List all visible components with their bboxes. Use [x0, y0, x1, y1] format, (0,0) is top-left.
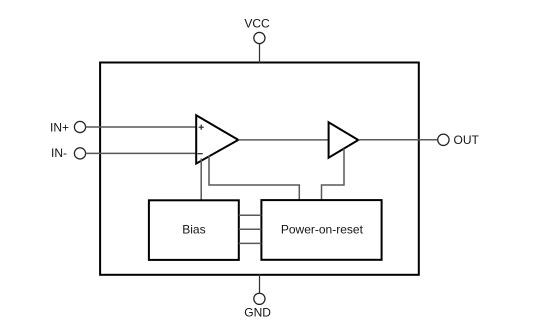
buffer triangle	[329, 122, 359, 157]
svg-text:OUT: OUT	[454, 133, 480, 147]
plus sign noninverting input	[199, 125, 204, 130]
wire buffer to Power-on-reset block	[322, 149, 345, 202]
wire op-amp to Power-on-reset block	[209, 156, 299, 202]
wire IN- terminal to op-amp inverting input	[86, 152, 197, 154]
bus wire 2 between Bias and Power-on-reset	[239, 228, 262, 230]
OUT pin terminal	[438, 134, 449, 145]
wire box bottom to GND terminal	[259, 274, 261, 293]
VCC pin terminal	[254, 32, 265, 43]
wire VCC terminal to box top	[259, 44, 261, 63]
Bias block	[149, 200, 239, 260]
svg-text:Bias: Bias	[182, 222, 205, 236]
wire op-amp output to buffer input	[238, 139, 328, 141]
IN- pin terminal	[74, 148, 85, 159]
GND pin terminal	[254, 293, 265, 304]
wire op-amp to Bias block	[200, 159, 202, 202]
op-amp comparator triangle	[196, 115, 238, 163]
svg-text:IN-: IN-	[51, 146, 67, 160]
minus sign inverting input	[198, 153, 203, 155]
svg-text:VCC: VCC	[244, 17, 270, 31]
bus wire 3 between Bias and Power-on-reset	[239, 242, 262, 244]
IN+ pin terminal	[74, 121, 85, 132]
IC boundary box	[100, 63, 419, 275]
bus wire 1 between Bias and Power-on-reset	[239, 214, 262, 216]
svg-text:Power-on-reset: Power-on-reset	[281, 223, 364, 237]
wire IN+ terminal to op-amp noninverting input	[86, 126, 197, 128]
svg-text:GND: GND	[244, 305, 271, 319]
svg-text:IN+: IN+	[50, 120, 69, 134]
Power-on-reset block	[261, 200, 381, 260]
wire buffer output to OUT terminal	[358, 139, 437, 141]
